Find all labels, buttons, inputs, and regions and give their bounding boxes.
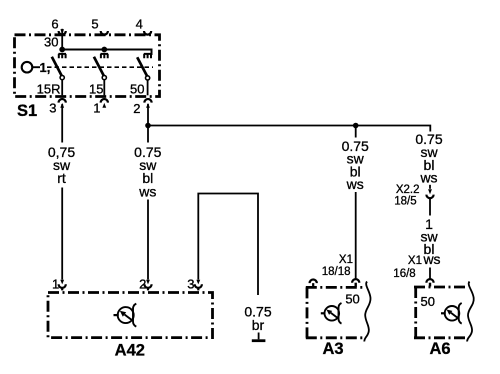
wire label 0.75 sw bl ws (134, 144, 161, 200)
svg-text:A42: A42 (115, 342, 145, 360)
wire label 1 sw bl ws (420, 216, 440, 267)
svg-text:15: 15 (89, 82, 103, 97)
svg-text:A6: A6 (429, 340, 450, 358)
connector X1 16/8 label (393, 255, 422, 280)
A42 pin1 socket (59, 284, 66, 290)
wire X2.2 to A6 (429, 198, 431, 215)
wire label 0.75 sw bl ws (342, 138, 369, 192)
svg-text:5: 5 (91, 17, 98, 32)
A6 torn edge (467, 282, 474, 342)
motor icon A3 (321, 303, 342, 324)
ground wire from A42 pin3 (198, 194, 258, 296)
connector X2.2 wire stub (429, 185, 431, 189)
contact 15 wire (103, 80, 105, 96)
svg-text:X1: X1 (408, 255, 422, 267)
svg-text:50: 50 (130, 82, 144, 97)
pin 1 plug arrow (102, 103, 106, 108)
junction dot (59, 47, 65, 53)
switch blade 1 (52, 57, 62, 76)
A3 pin 50 socket (352, 279, 359, 283)
blade 1 pivot (60, 76, 64, 80)
contact 50 wire (147, 80, 149, 95)
svg-text:ws: ws (138, 183, 156, 199)
motor icon A6 (441, 303, 462, 324)
wire rail junction lower segment to A42 pin2 (147, 200, 149, 280)
svg-text:18/18: 18/18 (322, 266, 351, 278)
junction dot rail left (145, 123, 151, 129)
svg-text:6: 6 (51, 17, 58, 32)
pin 2 socket (144, 99, 151, 103)
A3 branch wire lower (355, 192, 357, 279)
connector X1 18/18 label (322, 254, 353, 278)
ground (252, 333, 266, 341)
starter unit A6 box (414, 287, 466, 338)
connector X2.2 18/5 label (394, 184, 419, 208)
mechanical linkage dashed line (47, 66, 153, 68)
A3 branch wire upper (355, 126, 357, 138)
wire S1 pin3 lower segment to A42 pin1 (61, 188, 63, 280)
pin 4 socket (144, 31, 151, 35)
washer pump unit A42 box (48, 293, 213, 338)
pin 5 socket (101, 31, 108, 35)
switch blade 2 (94, 57, 104, 76)
contact 15R wire (61, 80, 63, 96)
pin 2 plug arrow (146, 103, 150, 108)
svg-text:2: 2 (133, 101, 140, 116)
svg-text:4: 4 (136, 17, 143, 32)
svg-text:3: 3 (187, 277, 194, 292)
fixed contact 3 (144, 54, 152, 58)
ignition switch S1 box (15, 35, 160, 97)
A42 pin3 plug arrow (196, 280, 200, 285)
blade 3 pivot (146, 76, 150, 80)
svg-text:2: 2 (139, 277, 146, 292)
A6 branch wire lower (429, 268, 431, 279)
svg-text:30: 30 (44, 35, 58, 50)
pin 3 plug arrow (60, 103, 64, 108)
wire pin6 to bus (61, 29, 63, 50)
connector X2.2 socket (426, 195, 433, 199)
svg-text:X2.2: X2.2 (396, 184, 420, 196)
pin 3 socket (59, 99, 66, 103)
A42 pin1 plug arrow (60, 280, 64, 285)
svg-text:50: 50 (345, 292, 359, 307)
svg-text:18/5: 18/5 (394, 196, 416, 208)
starter relay A3 box (306, 287, 364, 337)
fixed contact 2 (101, 54, 109, 58)
svg-text:A3: A3 (322, 340, 343, 358)
wire label 0.75 br (244, 304, 271, 334)
pin 6 plug arrow (60, 29, 64, 34)
svg-text:X1: X1 (339, 254, 353, 266)
lock linkage stub (33, 66, 41, 68)
svg-text:S1: S1 (17, 102, 37, 120)
svg-text:50: 50 (421, 294, 435, 309)
wire S1 pin2 upper segment to rail junction (147, 104, 149, 143)
svg-text:br: br (252, 317, 265, 333)
junction dot (101, 47, 107, 53)
bus wire terminal 30 (62, 50, 151, 56)
junction dot rail A3 branch (353, 123, 359, 129)
wire S1 pin3 upper segment (61, 104, 63, 143)
A6 pin 50 stub (429, 283, 431, 287)
connector X2.2 plug arrow (428, 189, 432, 194)
blade 2 pivot (102, 76, 106, 80)
svg-text:1: 1 (93, 101, 100, 116)
switch blade 3 (137, 57, 147, 76)
lock cylinder symbol (22, 62, 33, 73)
A6 branch labels 0.75 sw bl ws (415, 131, 442, 185)
svg-text:ws: ws (422, 251, 440, 267)
fixed contact 1 (58, 54, 66, 58)
pin 6 socket (59, 31, 66, 35)
svg-text:ws: ws (346, 176, 364, 192)
svg-text:rt: rt (57, 170, 66, 186)
svg-text:15R: 15R (37, 82, 61, 97)
svg-text:16/8: 16/8 (393, 268, 415, 280)
pin 1 socket (101, 99, 108, 103)
main rail wire terminal 50 (148, 126, 430, 132)
A3 torn edge (364, 282, 370, 342)
svg-text:1: 1 (52, 277, 59, 292)
A42 pin2 plug arrow (146, 280, 150, 285)
svg-text:ws: ws (419, 170, 437, 186)
A42 pin3 socket (195, 284, 202, 290)
pump motor icon A42 (114, 304, 137, 327)
A42 pin2 socket (144, 284, 151, 290)
A3 pin 50 stub (355, 283, 357, 287)
A6 pin 50 socket (426, 279, 433, 283)
wire label 0,75 sw rt (48, 144, 75, 186)
A3 spare socket (310, 280, 317, 287)
svg-text:3: 3 (49, 101, 56, 116)
